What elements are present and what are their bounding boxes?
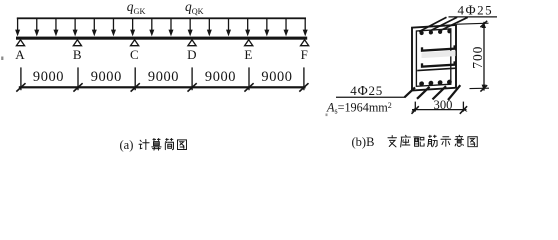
supports (pin triangles) at A..F: [16, 40, 308, 46]
svg-text:(a): (a): [120, 138, 134, 152]
300 dim: dimension line: [412, 109, 467, 111]
beam line A-F: [16, 37, 307, 40]
tie bar 2 (with end hooks): [422, 61, 455, 66]
stirrup (inner rectangle): [416, 29, 450, 86]
svg-text:F: F: [301, 47, 308, 62]
dimension slash marks: [16, 83, 308, 91]
bottom rebar row (4 bars): [419, 80, 452, 87]
svg-text:D: D: [187, 47, 196, 62]
700 dim: top extension line: [457, 23, 489, 24]
svg-text:B: B: [73, 47, 82, 62]
svg-text:A: A: [15, 47, 25, 62]
svg-text:E: E: [244, 47, 252, 62]
svg-text:9000: 9000: [148, 69, 179, 85]
scan specks: [1, 57, 3, 61]
hatch leaders to bottom 4phi25 label: [405, 85, 461, 100]
700 dim: top arrow + slash: [482, 22, 486, 28]
svg-text:9000: 9000: [261, 69, 292, 85]
thin line under tie 2: [417, 68, 456, 70]
300 dim: left extension tick: [414, 102, 416, 112]
dimension extension ticks at supports: [21, 67, 304, 90]
700 dim: bottom extension line: [470, 87, 490, 89]
scan smudge between ties: [422, 51, 456, 59]
distributed load arrows: [15, 18, 308, 36]
tie bar 1 (with end hooks): [422, 45, 455, 50]
svg-text:4Φ25: 4Φ25: [458, 2, 494, 17]
300 dim: right slash arrow: [462, 108, 467, 112]
svg-text:4Φ25: 4Φ25: [350, 83, 383, 98]
top rebar row (4 bars): [420, 29, 452, 35]
load line (top of distributed load q): [17, 17, 306, 19]
svg-text:9000: 9000: [33, 69, 64, 85]
svg-text:(b)B: (b)B: [352, 135, 375, 149]
svg-text:C: C: [130, 47, 139, 62]
leader underline for bottom 4phi25: [336, 96, 405, 98]
beam section: concrete outline (outer rectangle): [412, 25, 456, 90]
svg-text:9000: 9000: [91, 69, 122, 85]
svg-text:700: 700: [470, 46, 485, 69]
700 dim: vertical dimension line: [483, 22, 485, 91]
leader underline for top 4phi25: [449, 16, 498, 18]
hatch leaders to top 4phi25 label: [419, 17, 468, 31]
svg-text:9000: 9000: [205, 69, 236, 85]
svg-text:300: 300: [434, 98, 453, 112]
700 dim: bottom arrow + slash: [482, 85, 486, 91]
300 dim: right extension tick: [462, 102, 464, 112]
300 dim: left slash arrow: [411, 108, 416, 112]
dimension line: [19, 86, 306, 88]
